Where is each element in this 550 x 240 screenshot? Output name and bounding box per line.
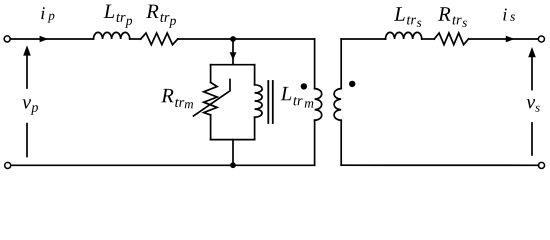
label L_trs <box>394 7 421 27</box>
shunt loop top edge <box>211 64 255 66</box>
core bars <box>268 81 273 123</box>
label i_p <box>41 7 54 22</box>
terminal primary top <box>4 36 10 42</box>
wire secondary top right <box>469 38 539 40</box>
polarity dot primary <box>301 83 307 89</box>
label L_trp <box>104 5 133 28</box>
wire primary top left <box>10 38 93 40</box>
inductor L_trs <box>386 32 422 39</box>
node bottom junction <box>230 162 236 168</box>
inductor L_trp <box>94 32 130 39</box>
current arrow i_p <box>40 36 49 43</box>
voltage arrow v_s <box>528 47 536 155</box>
wire secondary top <box>341 38 385 40</box>
label i_s <box>503 8 515 21</box>
shunt loop bottom edge <box>211 139 255 141</box>
resistor R_trs <box>434 33 468 45</box>
wire primary bottom <box>10 164 314 166</box>
wire secondary bottom <box>341 164 538 166</box>
wire shunt to bottom <box>232 140 234 166</box>
wire <box>130 38 141 40</box>
label v_p <box>22 99 38 114</box>
magnetizing branch wire with down arrow <box>230 39 237 65</box>
inductor L_trm (magnetizing) <box>255 65 263 140</box>
resistor R_trp <box>141 33 178 45</box>
label R_trm <box>161 89 193 108</box>
nonlinearity characteristic arrow of R_trm <box>194 80 231 117</box>
terminal secondary top <box>538 36 544 42</box>
current arrow i_s <box>506 36 515 43</box>
wire <box>422 38 434 40</box>
terminal primary bottom <box>5 162 11 168</box>
label R_trp <box>146 5 176 28</box>
polarity dot secondary <box>349 81 355 87</box>
node top junction <box>230 36 236 42</box>
resistor R_trm (nonlinear) <box>204 65 217 140</box>
transformer primary winding <box>315 39 322 165</box>
transformer secondary winding <box>334 39 341 165</box>
wire <box>178 38 315 40</box>
voltage arrow v_p <box>23 45 31 156</box>
terminal secondary bottom <box>538 162 544 168</box>
label R_trs <box>438 7 467 27</box>
label v_s <box>527 99 540 112</box>
label L_trm <box>281 87 314 108</box>
